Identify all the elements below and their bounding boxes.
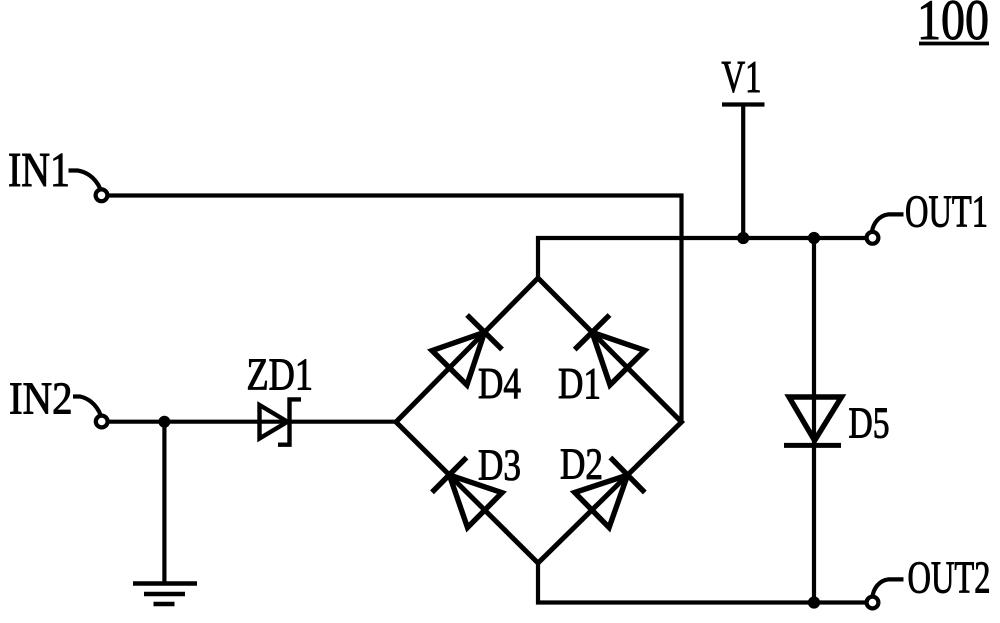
diode D5 triangle [789, 397, 842, 441]
svg-text:D3: D3 [478, 441, 521, 490]
svg-text:ZD1: ZD1 [247, 349, 314, 400]
svg-text:OUT2: OUT2 [908, 552, 991, 603]
svg-text:D1: D1 [558, 359, 601, 408]
wire IN2 to bridge left vertex [109, 420, 396, 424]
terminal IN2 lead curl [73, 397, 101, 416]
wire to ground [162, 422, 166, 584]
wire bridge diamond edges [396, 278, 682, 563]
figure label 100 [917, 0, 989, 52]
terminal OUT2 circle [867, 597, 879, 609]
svg-text:IN1: IN1 [8, 142, 70, 197]
diode D3 triangle [449, 475, 502, 528]
terminal OUT1 lead curl [872, 214, 904, 231]
zener ZD1 triangle [260, 405, 288, 439]
wire V1 to OUT1 net [741, 105, 745, 239]
ground [133, 584, 197, 605]
diode D2 cathode bar [610, 458, 644, 493]
diode D4 cathode bar [467, 315, 502, 349]
diode D1 cathode bar [575, 315, 610, 350]
diode D3 cathode bar [432, 458, 467, 493]
wire OUT1 junction down to OUT2 net (D5 branch) [812, 238, 816, 603]
terminal IN1 lead curl [69, 171, 101, 190]
junction V1/OUT1 [738, 232, 749, 243]
svg-text:OUT1: OUT1 [905, 185, 988, 236]
terminal OUT2 lead curl [873, 579, 904, 596]
terminal OUT1 circle [867, 232, 879, 244]
junction D5 top/OUT1 [808, 232, 819, 243]
diode D1 triangle [592, 332, 645, 385]
svg-text:D5: D5 [849, 398, 890, 447]
junction D5 bottom/OUT2 [808, 597, 819, 608]
diode D4 triangle [432, 332, 485, 385]
supply V1 terminal bar [722, 102, 765, 106]
wire bridge top vertex to OUT1 [538, 238, 867, 278]
svg-text:IN2: IN2 [9, 373, 73, 424]
diode D5 cathode bar [784, 443, 841, 448]
wire bridge bottom vertex to OUT2 [538, 563, 867, 603]
junction IN2/ground [159, 416, 170, 427]
wire IN1 to bridge right vertex [109, 196, 682, 423]
svg-text:D4: D4 [478, 359, 521, 408]
svg-text:D2: D2 [560, 440, 603, 489]
svg-text:V1: V1 [722, 52, 762, 102]
zener ZD1 cathode bar with hooks [278, 399, 301, 444]
diode D2 triangle [575, 475, 628, 528]
terminal IN1 circle [96, 189, 108, 201]
terminal IN2 circle [96, 416, 108, 428]
